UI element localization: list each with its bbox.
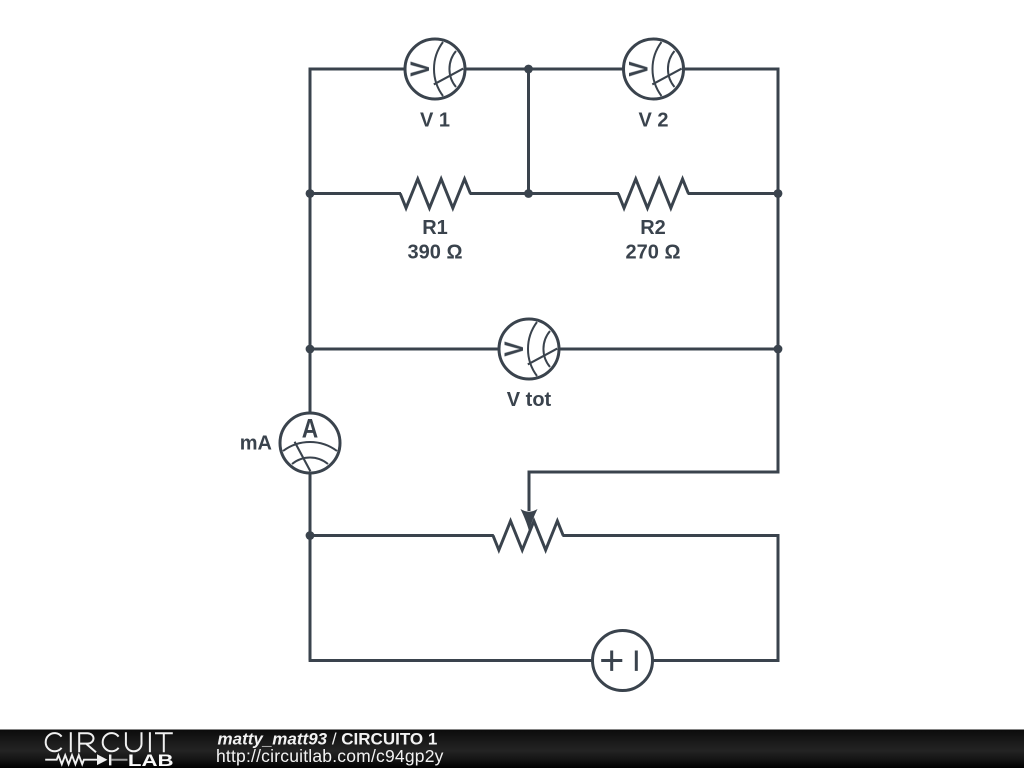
resistor R1	[400, 179, 470, 208]
voltmeter V1	[405, 39, 465, 99]
svg-text:V 1: V 1	[420, 110, 450, 132]
potentiometer zigzag	[493, 521, 563, 550]
footer bar	[0, 730, 1024, 768]
svg-text:V 2: V 2	[638, 110, 668, 132]
wire row2 middle lead	[470, 192, 619, 195]
junction node top-mid	[524, 65, 533, 74]
wire row2 right lead	[688, 192, 778, 195]
svg-text:V: V	[406, 61, 435, 77]
svg-text:LAB: LAB	[128, 752, 174, 768]
minus bar (rotated)	[635, 651, 638, 671]
junction node row4-left	[306, 531, 315, 540]
svg-text:390 Ω: 390 Ω	[408, 242, 463, 264]
svg-text:270 Ω: 270 Ω	[626, 242, 681, 264]
wire mid vertical	[527, 69, 530, 194]
svg-text:mA: mA	[240, 433, 272, 455]
wire left rail + top loop + right rail + wiper feed	[310, 69, 778, 661]
voltage source V3	[593, 631, 653, 691]
svg-text:V: V	[500, 341, 529, 357]
wire pot right lead + right rail lower + bottom wire	[309, 536, 778, 661]
junction node row3-right	[774, 345, 783, 354]
wire row2 left lead	[310, 192, 401, 195]
potentiometer wiper arrow	[521, 509, 538, 531]
junction node row2-left	[306, 189, 315, 198]
voltmeter Vtot	[499, 319, 559, 379]
logo diode triangle	[97, 754, 108, 765]
svg-text:A: A	[302, 415, 319, 444]
svg-text:V: V	[625, 61, 654, 77]
svg-text:http://circuitlab.com/c94gp2y: http://circuitlab.com/c94gp2y	[216, 746, 444, 766]
CircuitLab logo CIRCUIT outline text	[46, 732, 173, 752]
logo gray connector line	[111, 759, 127, 761]
ammeter	[280, 413, 340, 473]
junction node row2-right	[774, 189, 783, 198]
junction node row2-mid	[524, 189, 533, 198]
junction node row3-left	[306, 345, 315, 354]
wire row4 left lead	[310, 534, 494, 537]
plus sign	[601, 659, 622, 662]
wire row3 (V tot row)	[310, 348, 778, 351]
svg-text:R2: R2	[640, 217, 666, 239]
logo resistor-diode line	[45, 755, 110, 766]
resistor R2	[618, 179, 688, 208]
svg-text:V tot: V tot	[507, 389, 552, 411]
svg-text:R1: R1	[422, 217, 448, 239]
voltmeter V2	[624, 39, 684, 99]
